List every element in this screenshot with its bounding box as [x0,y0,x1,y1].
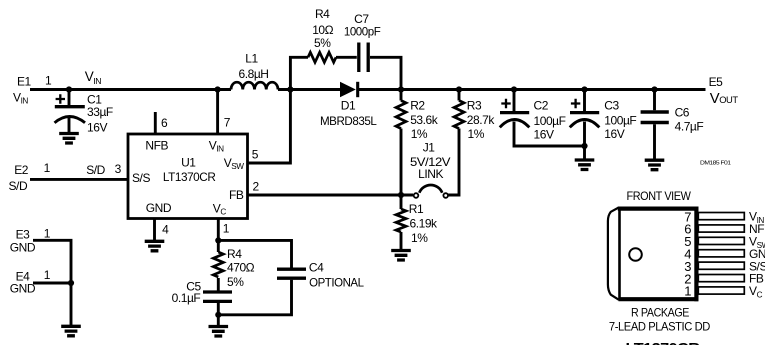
svg-text:E5: E5 [709,75,724,89]
package tab [608,208,619,300]
wire pin 7 [216,90,219,134]
wire R4 to C5 [217,278,220,291]
node E3 label [10,226,51,254]
capacitor C6 [641,106,704,134]
svg-text:1%: 1% [468,127,485,141]
svg-text:GND: GND [10,282,36,296]
svg-text:R4: R4 [227,247,242,261]
junction VSW node [287,86,293,92]
svg-text:33µF: 33µF [87,105,113,119]
svg-text:MBRD835L: MBRD835L [320,114,377,128]
wire E4 [33,282,71,285]
svg-text:53.6k: 53.6k [410,113,439,127]
svg-text:C2: C2 [534,98,549,112]
wire R1 top [400,195,403,209]
inductor L1 [231,52,278,90]
wire C4 branch [218,240,291,314]
svg-text:16V: 16V [87,121,107,135]
svg-text:GND: GND [146,201,172,215]
junction C6 tap [651,86,657,92]
svg-text:16V: 16V [534,127,554,141]
svg-text:1%: 1% [411,127,428,141]
package mounting hole [629,248,642,261]
svg-text:R2: R2 [410,99,425,113]
svg-text:R3: R3 [467,99,482,113]
svg-text:D1: D1 [341,99,356,113]
wire E2 to S/S pin 3 [30,178,128,181]
svg-text:C3: C3 [604,99,619,113]
node E2 label [9,161,122,193]
svg-text:7-LEAD PLASTIC DD: 7-LEAD PLASTIC DD [609,320,710,334]
ground under R1 [391,251,411,261]
svg-text:5: 5 [252,148,259,162]
junction diode output node [398,86,404,92]
svg-text:6.19k: 6.19k [410,216,439,230]
svg-text:1: 1 [44,161,51,175]
junction C2 tap [511,86,517,92]
capacitor C2 [500,98,566,141]
svg-text:100µF: 100µF [534,114,566,128]
resistor R4 470 [213,247,254,289]
wire C5 bottom [217,302,220,327]
op-amp U1 LT1370CR box [128,134,248,219]
node E1 label [13,73,52,105]
wire C3 [583,90,586,159]
svg-text:S/D: S/D [86,163,105,177]
wire R4 to C7 [336,56,357,59]
ground under C6 [645,160,665,170]
wire snubber left riser [290,57,308,89]
svg-text:S/S: S/S [132,171,150,185]
svg-text:LINK: LINK [418,167,443,181]
svg-text:470Ω: 470Ω [227,260,255,274]
svg-text:S/D: S/D [9,179,28,193]
svg-text:NFB: NFB [145,138,168,152]
junction VC node [215,237,221,243]
capacitor C4 [277,260,364,289]
resistor R3 [454,99,495,142]
svg-text:LT1370CR: LT1370CR [163,170,216,184]
node E4 label [10,268,51,295]
node E5 VOUT label [709,75,739,107]
svg-text:E3: E3 [16,228,31,242]
package pin 7 [684,209,764,225]
package pin 6 [684,222,765,237]
svg-text:1000pF: 1000pF [344,25,381,39]
svg-text:6: 6 [161,116,168,130]
junction C3 tap [581,86,587,92]
svg-text:U1: U1 [181,156,196,170]
ground under pin 4 [145,241,165,251]
resistor R2 [396,99,439,142]
wire R3 top [458,90,461,101]
package pin 4 [684,247,765,262]
package body [618,207,699,302]
svg-text:1%: 1% [411,231,428,245]
svg-text:1: 1 [44,268,51,282]
svg-text:1: 1 [44,226,51,240]
svg-text:2: 2 [253,179,260,193]
wire C1 tap [68,90,71,134]
junction C1 tap [66,86,72,92]
wire R2 bottom to FB node [400,129,403,196]
wire R1 bottom [400,232,403,251]
package pin 2 [684,271,764,286]
diode D1 MBRD835L [320,82,377,128]
svg-text:4.7µF: 4.7µF [675,119,704,133]
wire pin 4 [153,219,156,241]
svg-text:100µF: 100µF [604,113,636,127]
svg-text:0.1µF: 0.1µF [172,291,201,305]
wire C7 to node, snubber right riser [370,57,401,89]
junction pin7 tap [215,86,221,92]
jumper J1 5V/12V LINK [410,140,450,198]
wire R3 bottom to jumper [448,129,460,196]
svg-text:R PACKAGE: R PACKAGE [631,305,689,319]
capacitor C7 [344,12,381,72]
wire C2 [514,90,585,147]
ground under C1 [59,134,79,144]
svg-text:VOUT: VOUT [710,91,739,107]
junction FB node [398,192,404,198]
junction C5 bottom node [215,312,221,318]
svg-text:DM185 F01: DM185 F01 [700,161,731,167]
capacitor C3 [570,99,637,141]
wire R2 top [400,90,403,101]
svg-text:FRONT VIEW: FRONT VIEW [627,189,692,203]
resistor R4 snubber [308,7,336,63]
svg-text:E1: E1 [17,75,32,89]
svg-text:5%: 5% [227,275,244,289]
svg-text:4: 4 [162,222,169,236]
svg-text:L1: L1 [245,52,258,66]
svg-text:R1: R1 [409,202,424,216]
resistor R1 [396,202,438,245]
ground under C3 [575,160,595,170]
wire L1 to D1 [278,88,340,91]
package pin 1 [684,284,762,300]
svg-text:28.7k: 28.7k [467,113,496,127]
svg-text:LT1370CR: LT1370CR [626,341,701,345]
capacitor C1 [55,92,113,134]
wire VC node to R4 [217,240,220,252]
svg-text:7: 7 [224,116,231,130]
wire pin 5 VSW [248,90,290,164]
svg-text:C6: C6 [675,106,690,120]
svg-text:GND: GND [10,241,36,255]
wire pin 6 stub [154,112,157,134]
junction R3 tap [456,86,462,92]
svg-text:OPTIONAL: OPTIONAL [309,276,364,290]
svg-text:6.8µH: 6.8µH [238,67,268,81]
package pin 5 [684,234,765,250]
junction C3 bottom node [581,143,587,149]
wire main input rail E1 to L1 [30,88,231,91]
svg-text:C4: C4 [309,260,324,274]
wire FB from pin 2 [248,194,413,197]
package pin 3 [684,259,765,274]
svg-text:E2: E2 [14,163,29,177]
junction E4 node [68,280,74,286]
svg-text:1: 1 [684,284,691,299]
svg-text:1: 1 [45,73,52,87]
ground under C5 [209,327,229,337]
wire E3 [33,240,71,326]
svg-text:J1: J1 [423,140,436,154]
svg-text:5%: 5% [314,36,331,50]
wire pin 1 VC [217,219,220,240]
svg-text:FB: FB [229,188,244,202]
svg-text:16V: 16V [604,127,624,141]
wire C6 [653,90,656,159]
svg-text:1: 1 [223,222,230,236]
ground under E3 E4 [61,326,81,336]
capacitor C5 [172,279,232,305]
svg-text:R4: R4 [315,7,330,21]
wire output rail [359,88,706,91]
svg-text:3: 3 [115,162,122,176]
